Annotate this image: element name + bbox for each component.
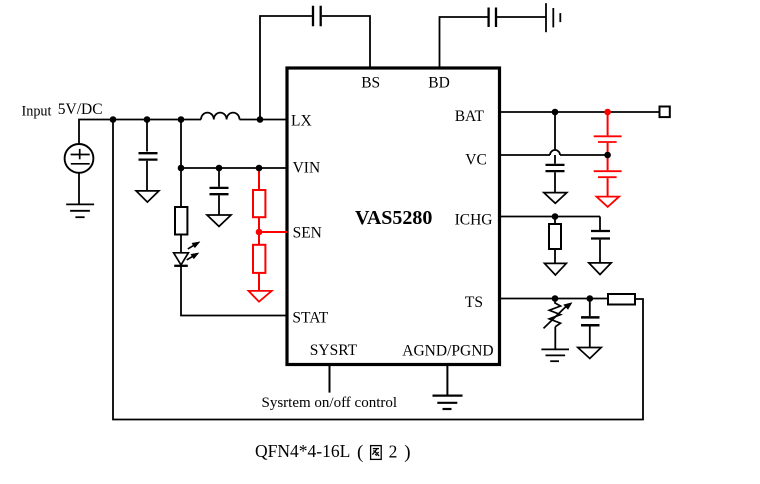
wire RT1 bottom bbox=[554, 327, 556, 349]
wire C1 bottom bbox=[146, 161, 148, 191]
IC U1 VAS5280 body bbox=[287, 68, 500, 365]
wire red C6-C7 bbox=[607, 143, 609, 170]
LED D1 bbox=[174, 253, 189, 266]
capacitor C6 (red) bbox=[594, 136, 622, 142]
wire AGND stub bbox=[446, 365, 448, 395]
ground (C2 arrow) bbox=[207, 215, 231, 226]
wire C9 branch bbox=[589, 299, 591, 317]
inductor L1 bbox=[201, 113, 240, 120]
wire C5 bottom bbox=[554, 172, 556, 192]
svg-text:VAS5280: VAS5280 bbox=[355, 207, 432, 229]
LED D1 arrows bbox=[187, 242, 200, 260]
wire R4 bottom bbox=[554, 249, 556, 263]
ground (RT1) bbox=[541, 349, 569, 361]
svg-text:Input: Input bbox=[22, 104, 52, 120]
svg-text:5V/DC: 5V/DC bbox=[58, 101, 103, 118]
capacitor C3 (bootstrap) bbox=[313, 6, 321, 27]
wire red R3 bottom bbox=[258, 273, 260, 291]
capacitor C2 bbox=[210, 188, 229, 194]
wire LED to STAT rail bbox=[181, 267, 287, 316]
ground (rotated, BD) bbox=[546, 3, 560, 32]
node VIN-R1 junction bbox=[178, 165, 185, 172]
node LX junction bbox=[110, 116, 117, 123]
wire R1 top bbox=[180, 168, 182, 207]
node VIN-C2 junction bbox=[216, 165, 223, 172]
wire C2 bottom bbox=[218, 195, 220, 214]
wire LX rail left segment bbox=[79, 120, 201, 144]
svg-text:VIN: VIN bbox=[293, 160, 321, 177]
svg-text:AGND/PGND: AGND/PGND bbox=[402, 343, 493, 360]
capacitor C1 bbox=[139, 153, 158, 159]
ground (R4 arrow) bbox=[545, 263, 567, 275]
wire BAT rail bbox=[500, 111, 659, 113]
svg-text:Sysrtem on/off control: Sysrtem on/off control bbox=[262, 395, 398, 411]
svg-text:BAT: BAT bbox=[455, 108, 485, 125]
voltage source V1 bbox=[65, 144, 94, 173]
node BAT-C6 junction (red) bbox=[604, 109, 611, 116]
svg-text:TS: TS bbox=[465, 294, 483, 311]
node VIN-R2 junction bbox=[256, 165, 263, 172]
wire C9 bottom bbox=[589, 327, 591, 348]
node ICHG junction bbox=[552, 213, 559, 220]
ground (C8 arrow) bbox=[589, 263, 611, 275]
capacitor C8 bbox=[591, 231, 610, 239]
capacitor C4 (BD) bbox=[489, 8, 496, 28]
terminal square BAT bbox=[660, 107, 670, 118]
node BS loop junction bbox=[257, 116, 264, 123]
node TS-C9 junction bbox=[587, 295, 594, 302]
svg-text:SEN: SEN bbox=[293, 225, 322, 242]
node TS-RT1 junction bbox=[552, 295, 559, 302]
ground (C5 arrow) bbox=[544, 193, 567, 204]
resistor R1 bbox=[175, 207, 187, 235]
ground (AGND) bbox=[433, 396, 463, 409]
wire BD loop bbox=[440, 17, 546, 68]
ground (C9 arrow) bbox=[578, 348, 601, 359]
resistor R2 (red) bbox=[253, 190, 265, 217]
wire VIN branch + VIN rail bbox=[181, 120, 287, 169]
wire left drop / bottom rail / right riser bbox=[113, 120, 643, 420]
node VIN branch junction bbox=[178, 116, 185, 123]
resistor R3 (red) bbox=[253, 245, 265, 273]
svg-text:ICHG: ICHG bbox=[455, 212, 493, 229]
wire ICHG rail bbox=[500, 216, 600, 218]
wire BS loop bbox=[260, 16, 370, 120]
svg-text:2: 2 bbox=[389, 442, 398, 462]
wire red R2 to R3 bbox=[258, 217, 260, 245]
resistor R4 bbox=[549, 224, 561, 249]
wire C8 bottom bbox=[599, 240, 601, 263]
thermistor RT1 bbox=[549, 299, 560, 327]
ground (red arrow VC) bbox=[597, 197, 620, 207]
svg-text:VC: VC bbox=[465, 152, 487, 169]
node C1 junction bbox=[144, 116, 151, 123]
ground (C1 arrow) bbox=[136, 191, 159, 202]
node VC-C7 junction bbox=[604, 152, 611, 159]
wire C5 branch from BAT with hop bbox=[550, 112, 560, 164]
wire SEN red top bbox=[258, 168, 260, 190]
svg-text:QFN4*4-16L: QFN4*4-16L bbox=[255, 441, 350, 461]
label caption Chinese char 图 bbox=[371, 446, 382, 460]
wire red BAT cap chain bbox=[607, 112, 609, 135]
svg-text:STAT: STAT bbox=[292, 310, 328, 327]
svg-text:BS: BS bbox=[361, 75, 380, 92]
svg-text:): ) bbox=[404, 442, 410, 463]
wire source bottom bbox=[78, 173, 80, 204]
wire LX rail right segment bbox=[240, 119, 288, 121]
wire R1 to LED bbox=[180, 235, 182, 253]
wire TS rail bbox=[500, 298, 608, 300]
ground (red arrow SEN) bbox=[249, 291, 272, 302]
wire SEN to IC (red) bbox=[259, 231, 287, 233]
ground (source) bbox=[66, 204, 94, 217]
wire R4 top bbox=[554, 217, 556, 225]
wire red C7 bottom bbox=[607, 178, 609, 196]
svg-text:(: ( bbox=[357, 442, 363, 463]
wire C2 top bbox=[218, 168, 220, 187]
svg-text:LX: LX bbox=[291, 113, 312, 130]
wire C1 branch top bbox=[146, 120, 148, 152]
node BAT-C5 junction bbox=[552, 109, 559, 116]
capacitor C7 (red) bbox=[594, 171, 622, 177]
wire C8 branch bbox=[599, 217, 601, 231]
wire SYSRT stub bbox=[329, 365, 331, 393]
capacitor C5 bbox=[546, 165, 565, 171]
resistor R5 (TS series) bbox=[608, 294, 635, 305]
svg-text:SYSRT: SYSRT bbox=[310, 342, 358, 359]
wire VC rail bbox=[500, 154, 608, 156]
svg-text:BD: BD bbox=[428, 75, 450, 92]
thermistor RT1 arrow bbox=[544, 306, 567, 328]
node SEN junction (red) bbox=[256, 229, 263, 236]
capacitor C9 bbox=[581, 317, 600, 325]
